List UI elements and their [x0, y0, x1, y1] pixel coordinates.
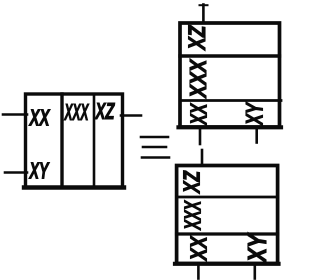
- wire output XZ: [121, 114, 141, 117]
- U1 bottom edge emphasis: [24, 185, 124, 189]
- wire U3 input XX bottom: [197, 264, 200, 279]
- U1 divider 1: [60, 94, 63, 188]
- wire U2 output top: [202, 5, 205, 24]
- U2 divider 1: [180, 54, 280, 57]
- tick on top wire: [200, 4, 208, 6]
- wire U2 input XY bottom: [255, 127, 258, 143]
- svg-text:XZ: XZ: [179, 170, 205, 194]
- svg-text:XZ: XZ: [184, 25, 211, 52]
- svg-text:XX: XX: [186, 235, 212, 262]
- U3 divider 2: [177, 232, 278, 235]
- wire U3 input XY bottom: [254, 264, 257, 279]
- svg-text:XY: XY: [28, 158, 50, 184]
- U3 divider 1: [177, 196, 278, 199]
- element U3 (rotated orientation, bottom) outline: [177, 166, 278, 264]
- svg-text:XZ: XZ: [94, 98, 115, 124]
- svg-text:XXX: XXX: [185, 58, 211, 99]
- U2 divider 2: [180, 99, 281, 102]
- svg-text:XY: XY: [242, 232, 272, 264]
- U1 divider 2: [93, 94, 96, 188]
- equivalence sign: [141, 137, 169, 158]
- svg-text:XXX: XXX: [180, 200, 206, 231]
- svg-text:XY: XY: [242, 102, 269, 127]
- U3 bottom edge emphasis: [175, 262, 279, 266]
- wire U3 output top: [201, 150, 204, 166]
- svg-text:XX: XX: [28, 105, 50, 131]
- U2 bottom edge emphasis: [179, 125, 282, 129]
- element U1 (horizontal orientation) outline: [26, 94, 123, 188]
- svg-text:XX: XX: [186, 103, 212, 127]
- wire input XY: [5, 171, 27, 174]
- wire U2 input XX bottom: [199, 127, 202, 144]
- svg-text:XXX: XXX: [63, 99, 89, 125]
- element U2 (rotated orientation, top) outline: [180, 23, 280, 127]
- wire input XX: [3, 113, 27, 116]
